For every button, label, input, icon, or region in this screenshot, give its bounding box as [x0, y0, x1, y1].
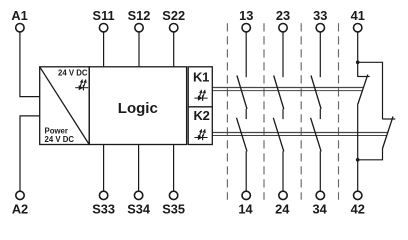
wire 41 left branch upper	[357, 62, 359, 77]
terminal 13	[239, 8, 253, 32]
wire S11 to logic	[103, 32, 105, 67]
contact K2 41-42 fixed tick	[383, 118, 396, 120]
dashed separator line 3	[300, 23, 302, 200]
svg-text:42: 42	[351, 201, 365, 216]
svg-text:Logic: Logic	[118, 100, 158, 117]
wire 42	[357, 160, 359, 191]
dashed separator line 1	[226, 23, 228, 200]
wire 23 upper	[282, 32, 284, 77]
wire 13-14 middle	[245, 109, 247, 119]
wire right branch bottom	[358, 148, 383, 160]
terminal 34	[312, 191, 327, 216]
contact K1 41-42 blade	[358, 75, 368, 104]
terminal 33	[313, 8, 327, 32]
terminal 41	[351, 8, 365, 32]
wire 41 to junction	[357, 32, 359, 62]
svg-text:24 V DC: 24 V DC	[58, 69, 88, 78]
svg-text:23: 23	[276, 8, 290, 23]
svg-text:S12: S12	[128, 8, 151, 23]
wire 23-24 middle	[282, 109, 284, 119]
svg-text:S34: S34	[127, 201, 151, 216]
svg-text:14: 14	[238, 201, 253, 216]
junction node bottom	[356, 158, 360, 162]
contact K2 33-34 blade	[311, 118, 322, 152]
terminal 14	[238, 191, 253, 216]
wire S33 to logic	[103, 145, 105, 192]
LED K1	[194, 90, 207, 101]
svg-text:K2: K2	[193, 108, 209, 123]
svg-text:34: 34	[312, 201, 327, 216]
svg-text:S35: S35	[162, 201, 185, 216]
wire A1 to power supply	[20, 32, 40, 97]
terminal 24	[275, 191, 290, 216]
wire S22 to logic	[173, 32, 175, 67]
logic block	[89, 67, 186, 145]
LED power indicator	[75, 79, 88, 90]
terminal A2	[12, 191, 28, 216]
label Power 24 V DC bottom	[45, 127, 75, 144]
svg-text:24 V DC: 24 V DC	[45, 135, 75, 144]
wire 14 lower	[245, 151, 247, 191]
power supply block	[40, 67, 89, 145]
terminal S34	[127, 191, 151, 216]
svg-text:S22: S22	[162, 8, 185, 23]
svg-text:S11: S11	[93, 8, 115, 23]
wire 13 upper	[245, 32, 247, 77]
svg-text:13: 13	[239, 8, 253, 23]
terminal S22	[162, 8, 185, 32]
dashed separator line 4	[338, 23, 340, 200]
contact K2 13-14 blade	[237, 118, 248, 152]
relay divider	[188, 106, 212, 108]
K2 actuation linkage line	[212, 133, 387, 136]
wire 33-34 middle	[319, 109, 321, 119]
contact K1 41-42 fixed tick	[358, 76, 370, 78]
relay block K1/K2	[188, 67, 212, 145]
contact K1 33-34 blade	[311, 76, 321, 110]
svg-text:41: 41	[351, 8, 365, 23]
wire S12 to logic	[138, 32, 140, 67]
terminal S11	[93, 8, 115, 32]
wire 33 upper	[319, 32, 321, 77]
terminal S12	[128, 8, 151, 32]
dashed separator line 2	[263, 23, 265, 200]
svg-text:24: 24	[275, 201, 290, 216]
svg-text:K1: K1	[193, 69, 209, 84]
LED K2	[194, 129, 207, 140]
contact K1 13-14 blade	[237, 76, 247, 110]
terminal 42	[351, 191, 365, 216]
contact K1 23-24 blade	[274, 76, 284, 110]
wire S34 to logic	[138, 145, 140, 192]
K1 actuation linkage line	[212, 88, 363, 91]
svg-text:A2: A2	[12, 201, 28, 216]
contact K2 41-42 blade	[383, 117, 394, 149]
contact K2 23-24 blade	[273, 118, 284, 152]
wire S35 to logic	[173, 145, 175, 192]
wire A2 to power supply	[20, 116, 40, 191]
wire 24 lower	[282, 151, 284, 191]
svg-text:S33: S33	[92, 201, 115, 216]
wire right branch top	[358, 62, 383, 119]
svg-text:33: 33	[313, 8, 327, 23]
svg-text:A1: A1	[11, 8, 27, 23]
terminal S35	[162, 191, 185, 216]
terminal S33	[92, 191, 115, 216]
junction node top	[356, 61, 360, 65]
wire 41 left branch lower	[357, 104, 359, 160]
terminal 23	[276, 8, 290, 32]
terminal A1	[11, 8, 27, 32]
wire 34 lower	[319, 151, 321, 191]
